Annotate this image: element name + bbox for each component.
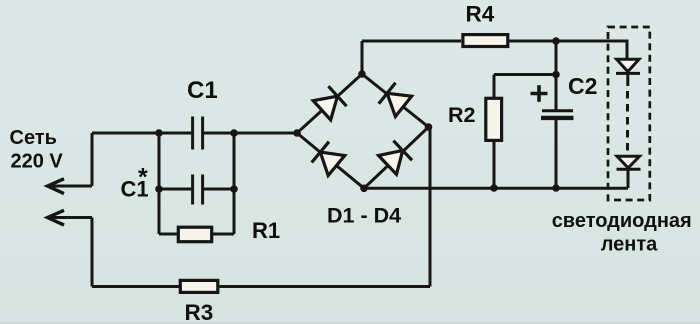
wire: bridge arm bottom-right [364, 127, 429, 188]
diode D3 (bridge bottom-left) [312, 142, 345, 176]
wire: C1* branch right [204, 188, 234, 191]
LED bottom diode [617, 156, 641, 169]
junction node: R2 bottom / DC rail [490, 184, 498, 192]
wire: dashed continuation between LEDs [626, 91, 629, 155]
wire: R1 branch right [213, 233, 234, 236]
svg-text:R2: R2 [448, 103, 476, 127]
junction node: rail/C1* left [155, 129, 163, 137]
wire: right AC riser to bridge right corner [429, 127, 432, 287]
capacitor C1 plates [193, 117, 203, 150]
junction node: C1* branch right [230, 185, 238, 193]
diode D4 (bridge bottom-right) [378, 141, 412, 175]
wire: bottom AC rail right of R3 [220, 285, 431, 288]
diode D1 (bridge top-left) [313, 86, 347, 120]
svg-text:R4: R4 [466, 1, 495, 26]
wire: upper prong riser to top rail [91, 133, 94, 186]
LED top diode [616, 59, 640, 86]
svg-text:*: * [138, 164, 148, 192]
resistor R3 [180, 280, 218, 292]
arrowhead: lower mains prong [48, 210, 65, 225]
LED strip dashed outline [608, 27, 650, 200]
junction node: bridge left corner [293, 129, 301, 137]
junction node: C1* branch left [155, 185, 163, 193]
wire: C1* branch left [159, 188, 191, 191]
wire: bridge arm left-top [297, 74, 362, 133]
wire: bridge arm top-right [362, 74, 429, 127]
wire: bridge top corner riser [361, 41, 364, 74]
wire: R2 bottom riser [493, 140, 496, 188]
wire: bottom AC rail left of R3 [92, 285, 179, 288]
junction node: bridge bottom corner [360, 185, 368, 193]
svg-text:светодиодная: светодиодная [552, 210, 692, 232]
diode D2 (bridge top-right) [379, 83, 412, 117]
wire: C1 network right vertical [233, 133, 236, 234]
svg-text:D1 - D4: D1 - D4 [327, 204, 401, 228]
wire: C2 top branch [555, 41, 558, 110]
wire: lower prong riser to bottom rail [91, 218, 94, 287]
wire: bridge arm left-bottom [297, 133, 364, 188]
wire: top AC rail right of C1 to bridge [204, 132, 297, 135]
resistor R2 [486, 98, 502, 140]
svg-text:C1: C1 [187, 77, 218, 104]
junction node: top rail / C2 [552, 37, 560, 45]
wire: bottom DC rail [364, 187, 628, 190]
wire: C2 bottom branch [555, 119, 558, 189]
svg-text:C2: C2 [568, 73, 597, 99]
resistor R1 [178, 227, 211, 242]
wire: lower plug prong shaft [50, 216, 92, 219]
wire: R2 top horizontal tap [494, 73, 556, 76]
capacitor C2 plates [541, 111, 574, 118]
arrowhead: upper mains prong [48, 179, 65, 194]
wire: upper plug prong shaft [50, 185, 92, 188]
wire: top AC rail left of C1 [92, 132, 191, 135]
capacitor C2 plus sign [531, 85, 548, 102]
junction node: R2 tap / C2 [552, 71, 560, 79]
junction node: bridge right corner [425, 123, 433, 131]
wire: R1 branch left [159, 233, 177, 236]
capacitor C1* plates [193, 175, 203, 205]
svg-text:R3: R3 [185, 300, 214, 324]
junction node: C2 bottom / DC rail [552, 184, 560, 192]
svg-text:Сеть: Сеть [10, 127, 57, 149]
wire: top DC rail left of R4 [362, 40, 461, 43]
svg-text:лента: лента [601, 234, 658, 256]
wire: LED strip bottom riser [627, 169, 630, 188]
wire: C1 network left vertical [158, 133, 161, 234]
resistor R4 [463, 35, 508, 47]
junction node: bridge top corner [358, 70, 366, 78]
wire: R2 top riser [493, 75, 496, 100]
junction node: rail/C1* right [230, 129, 238, 137]
wire: top DC rail right of R4 into LED strip [510, 41, 628, 59]
svg-text:220 V: 220 V [11, 150, 64, 172]
svg-text:R1: R1 [252, 218, 280, 243]
